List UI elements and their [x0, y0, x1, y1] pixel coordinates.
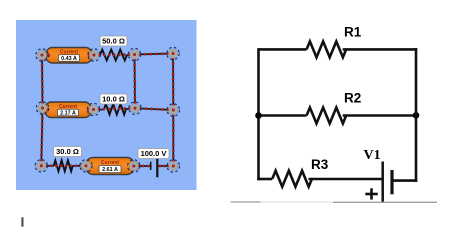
left simulation panel background — [16, 20, 197, 190]
schematic: middle wire — [259, 114, 417, 117]
resistor 30 ohm body — [40, 160, 87, 171]
battery V1 plus polarity mark — [365, 188, 378, 199]
svg-text:10.0 Ω: 10.0 Ω — [102, 95, 125, 104]
schematic: bottom wire left — [257, 178, 381, 181]
wire: middle vertical segment (node B to node F) — [133, 53, 136, 109]
battery 100 V (simulation) — [133, 158, 175, 178]
separator line segment (middle, faint) — [261, 201, 334, 203]
node J2 (resistor-ammeter) — [80, 160, 92, 172]
wire: middle row right segment (node F to node G) — [134, 107, 175, 111]
svg-text:2.17 A: 2.17 A — [60, 111, 76, 117]
node B (top-mid) — [128, 48, 140, 60]
battery V1: negative plate (short) — [390, 170, 393, 194]
ammeter A3 reading 2.61 A — [80, 158, 139, 175]
battery V1: positive plate (long) — [381, 162, 384, 203]
ammeter A1 reading 0.43 A — [40, 48, 97, 64]
svg-text:R2: R2 — [344, 91, 361, 106]
ammeter A2 reading 2.17 A — [39, 102, 96, 118]
separator line segment (right, gray) — [333, 201, 437, 203]
label R1 — [344, 24, 362, 39]
schematic: top wire — [259, 48, 418, 51]
svg-text:R1: R1 — [344, 24, 362, 39]
node G (mid-right) — [167, 104, 179, 116]
node F (mid-mid) — [129, 102, 141, 114]
value label 100.0 V — [138, 149, 169, 159]
wire: right column lower segment (node G to node K) — [172, 109, 174, 167]
node K (bottom-right) — [167, 160, 179, 172]
label R2 — [344, 91, 361, 106]
text cursor bar — [21, 217, 23, 226]
svg-text:2.61 A: 2.61 A — [102, 167, 118, 173]
node J3 (ammeter-battery) — [128, 160, 140, 172]
wire: top row right segment (node B to node C) — [133, 52, 174, 55]
schematic: right wire — [415, 48, 418, 182]
label V1 — [364, 148, 381, 163]
svg-text:30.0 Ω: 30.0 Ω — [56, 147, 79, 156]
node H (ammeter A2 right) — [87, 103, 99, 115]
svg-text:R3: R3 — [311, 157, 329, 172]
wire: left column upper segment — [41, 54, 44, 109]
svg-text:100.0 V: 100.0 V — [141, 149, 167, 158]
node E (mid-left) — [36, 102, 48, 114]
resistor R3 — [272, 171, 312, 187]
node dot left (middle wire to left wire) — [255, 112, 262, 119]
node C (top-right) — [167, 47, 179, 59]
schematic: left wire — [257, 48, 260, 180]
resistor R2 — [307, 108, 347, 124]
node dot right (middle wire to right wire) — [413, 112, 420, 119]
node D (ammeter A1 right) — [88, 49, 100, 61]
label R3 — [311, 157, 329, 172]
svg-text:0.43 A: 0.43 A — [61, 56, 77, 62]
value label 30.0 ohm — [54, 147, 82, 157]
wire: left column lower segment — [40, 107, 44, 167]
value label 50.0 ohm — [100, 36, 127, 46]
svg-text:50.0 Ω: 50.0 Ω — [102, 37, 125, 46]
value label 10.0 ohm — [100, 94, 127, 104]
svg-text:Current: Current — [101, 160, 119, 166]
resistor R1 — [307, 41, 347, 57]
separator line segment (left, gray) — [231, 201, 261, 203]
resistor 50 ohm body — [93, 50, 136, 61]
resistor 10 ohm body — [92, 104, 136, 115]
wire: right column upper segment (node C to node G) — [172, 52, 175, 111]
node A (top-left) — [36, 49, 48, 61]
svg-text:V1: V1 — [364, 148, 381, 163]
node J (bottom-left) — [35, 160, 47, 172]
schematic: bottom wire right — [392, 179, 417, 182]
